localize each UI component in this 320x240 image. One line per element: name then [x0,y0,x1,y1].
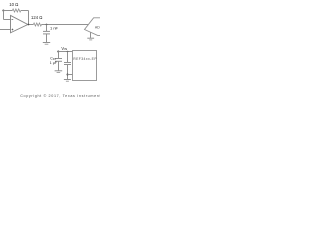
svg-text:Copyright © 2017, Texas Instru: Copyright © 2017, Texas Instruments Inco… [20,94,100,98]
wire (feedback top: dot to resistor R1) [3,10,12,12]
svg-text:1 µF: 1 µF [50,61,57,65]
wire (R2 to ADC) [42,24,89,26]
op-amp U1 triangle [11,15,28,32]
wire (VIN to U3) [58,51,72,53]
capacitor CIN 1 uF [58,52,60,59]
svg-text:VIN: VIN [61,46,67,51]
IC U3 REF34xx-EP box [73,51,97,81]
node B (output/feedback junction dot) [28,24,30,26]
op-amp plus sign [12,29,14,31]
wire (R1 to feedback corner) [21,10,29,12]
svg-text:124 Ω: 124 Ω [31,15,42,20]
svg-text:ADS8: ADS8 [95,26,100,30]
node E (GND pin junction dot) [67,74,69,76]
node D (bypass cap junction on VIN wire) [67,51,69,53]
ground (below CIN) [55,70,63,72]
node VIN (junction dot) [57,50,59,52]
ground (below C1) [43,42,50,44]
capacitor C1 1 nF [46,25,48,32]
capacitor C2 (bypass) [67,52,69,63]
node A (inverting feedback junction dot) [2,9,4,11]
resistor R1 10 ohm zigzag [12,9,20,12]
ground (below C2 / GND pin) [64,79,71,81]
resistor R2 124 ohm zigzag [33,23,41,26]
svg-text:REF34xx-EP: REF34xx-EP [73,57,97,61]
ground (ADC reference ground) [90,32,92,38]
wire (dot down to inverting input) [4,11,11,20]
wire (feedback vertical drop to output) [28,11,30,25]
wire (non-inverting input from left edge) [0,29,11,31]
svg-text:1 nF: 1 nF [50,26,59,31]
op-amp minus sign [12,19,14,21]
wire (op-amp output) [28,24,34,26]
wire (GND pin of U3) [68,74,73,76]
node C (capacitor junction dot) [46,24,48,26]
ADC U2 symbol (chevron, cropped at right edge) [85,18,101,36]
svg-text:10 Ω: 10 Ω [9,2,19,7]
